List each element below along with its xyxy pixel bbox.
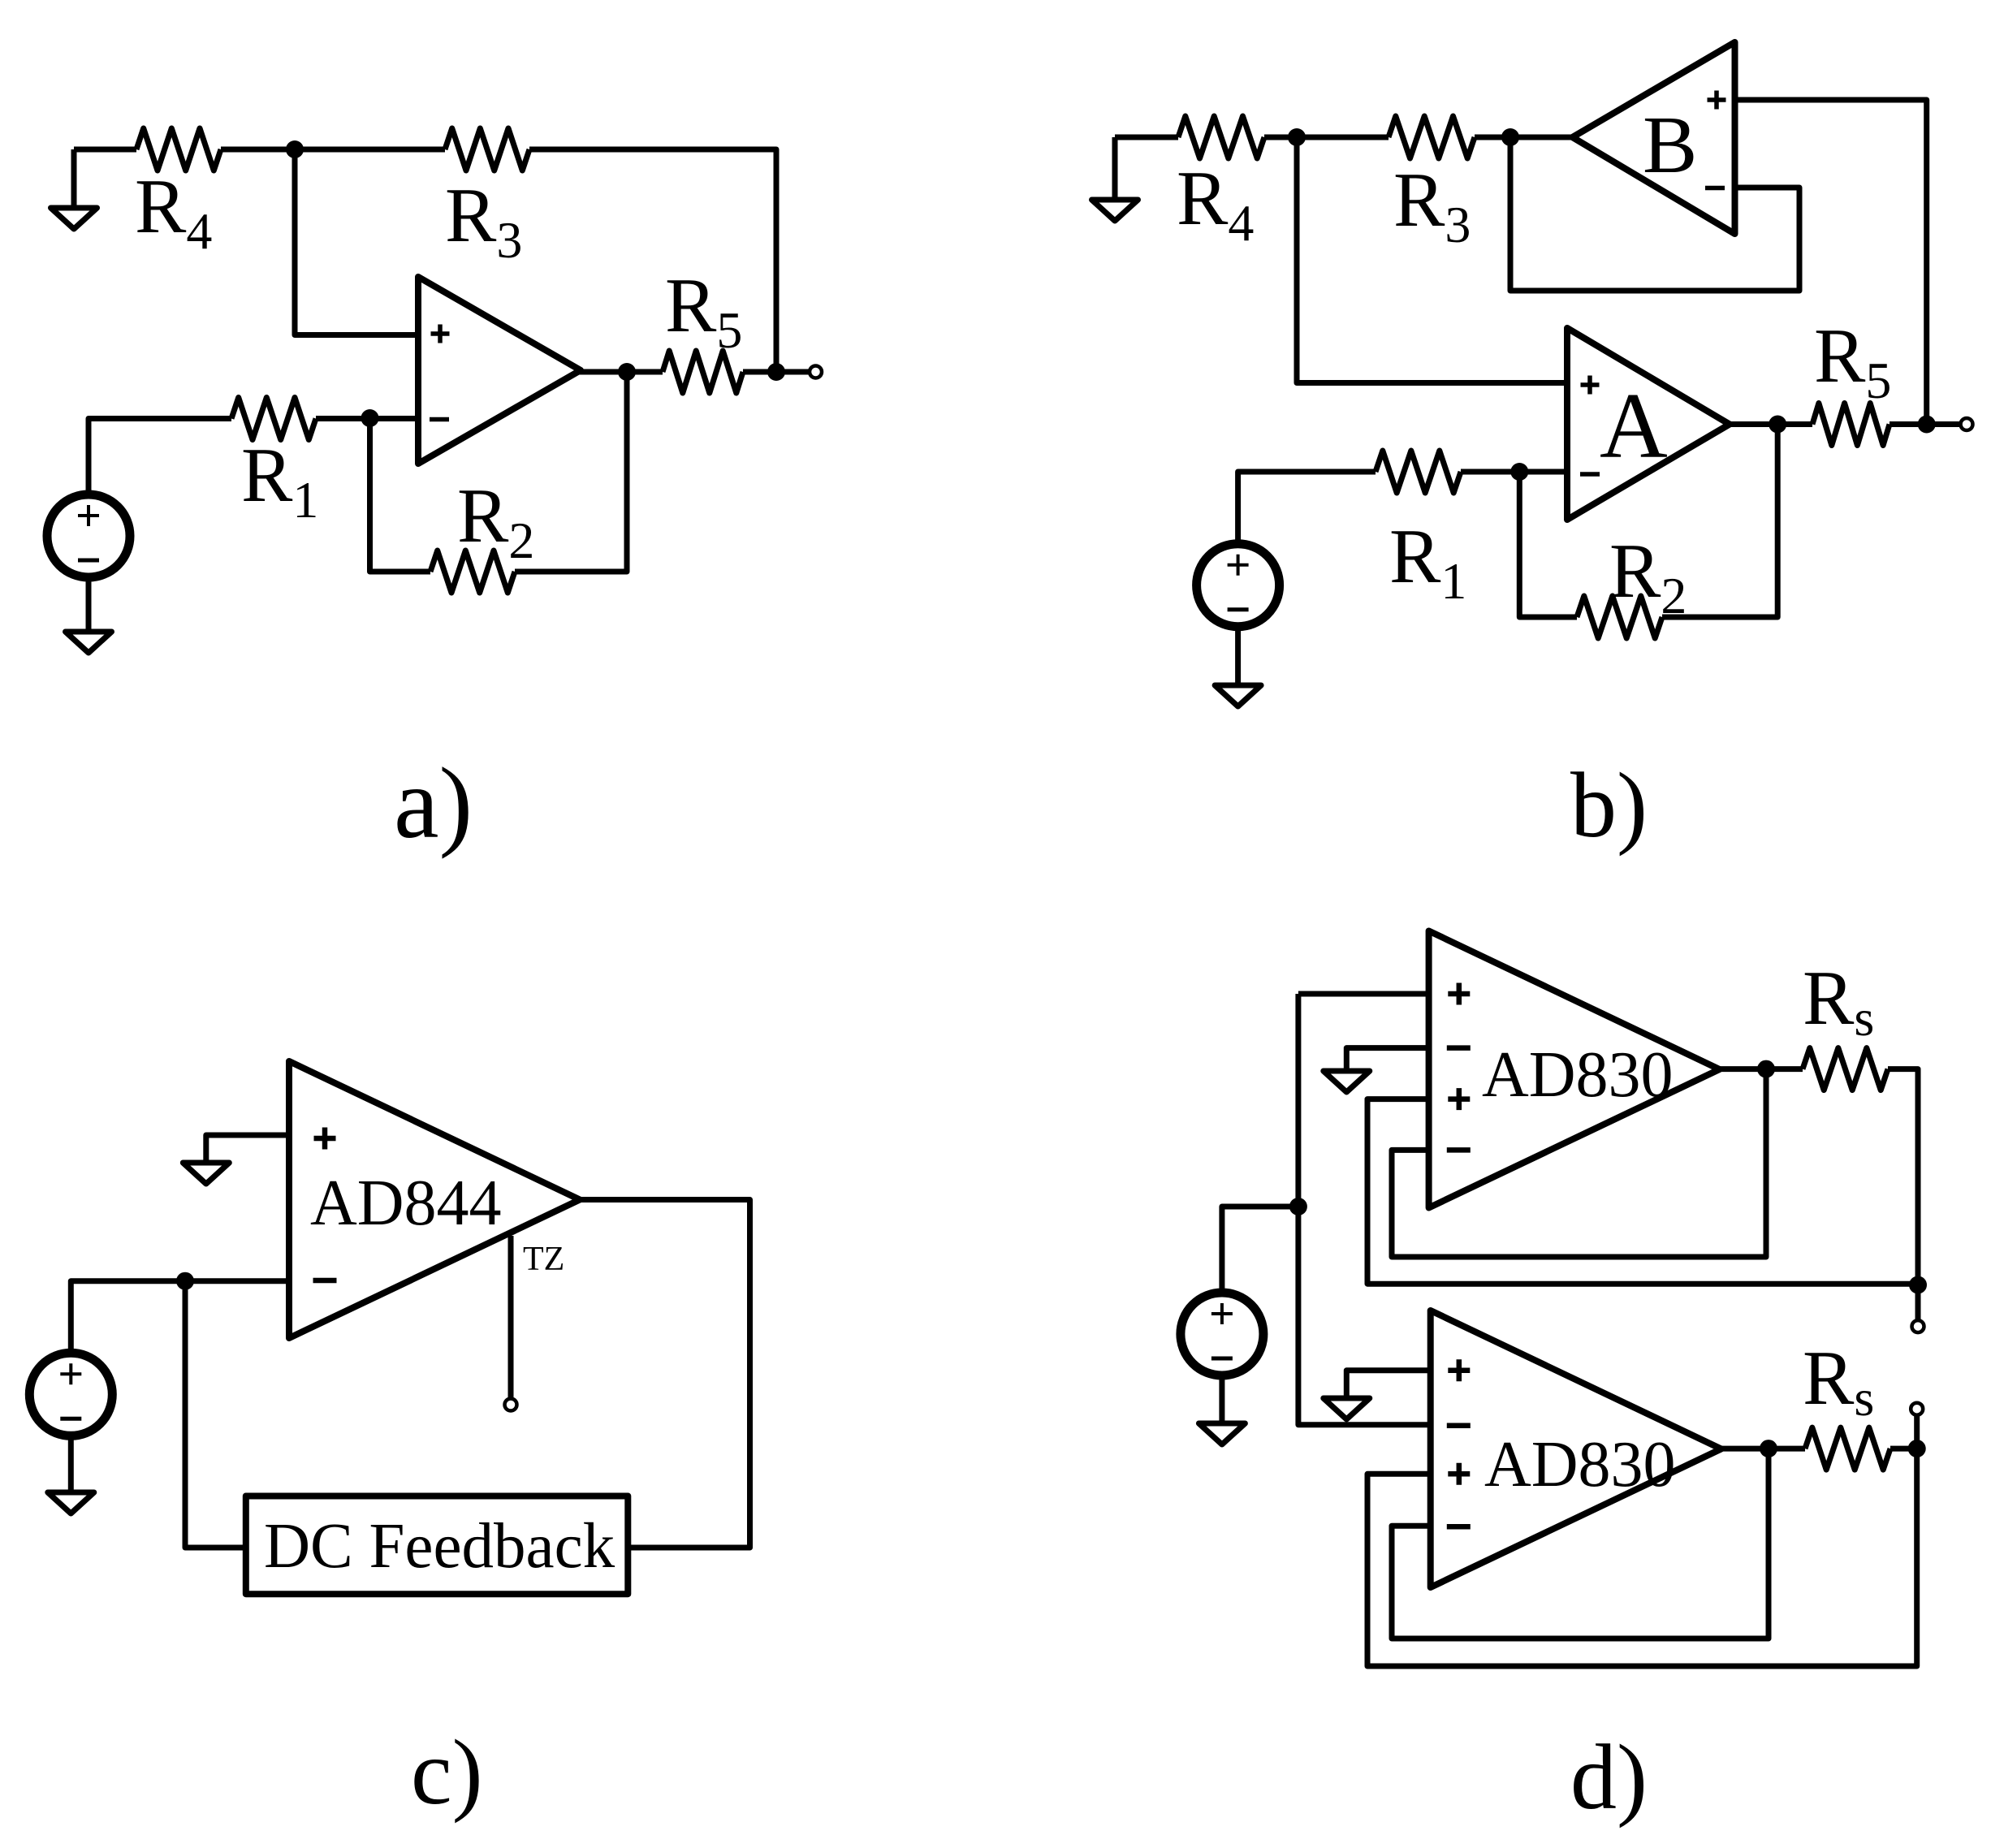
svg-text:AD830: AD830: [1484, 1429, 1676, 1500]
circuit a) output junction dot: [618, 363, 636, 381]
circuit a) ground under source: [66, 632, 112, 653]
circuit b) wire R5 to output terminal: [1890, 421, 1967, 427]
circuit b) R2 feedback loop wire left: [1519, 472, 1577, 617]
circuit b) op-amp B + input wire to output node: [1735, 100, 1927, 425]
circuit c) TZ pin stub: [508, 1236, 514, 1398]
circuit d) wire source to node: [1222, 1207, 1298, 1293]
circuit a) wire source to R1: [89, 419, 231, 495]
circuit d) ground at upper amp pin2: [1324, 1071, 1370, 1092]
circuit d) upper output terminal: [1912, 1320, 1924, 1332]
circuit a) wire R5 to output terminal: [743, 369, 815, 375]
svg-text:A: A: [1600, 374, 1668, 478]
circuit b) A output junction dot: [1769, 416, 1786, 434]
circuit c) AD844 + mark: [314, 1128, 336, 1150]
circuit a) node N1 junction dot: [286, 140, 304, 158]
svg-text:d): d): [1570, 1725, 1648, 1829]
circuit b) wire N1 to R3: [1297, 135, 1389, 140]
circuit b) R5 right junction dot: [1918, 416, 1936, 434]
circuit b) ground at R4 left: [1112, 137, 1118, 200]
circuit b) resistor R3: [1389, 116, 1475, 158]
svg-text:c): c): [411, 1721, 483, 1824]
circuit a) op-amp output wire: [577, 369, 663, 375]
circuit b) wire R1 to A - input: [1461, 469, 1567, 475]
circuit b) wire ground to R4: [1115, 135, 1178, 140]
circuit a) voltage source V1: [47, 494, 130, 577]
circuit d) lower output terminal: [1911, 1403, 1923, 1415]
circuit d) upper right junction dot: [1909, 1276, 1927, 1294]
circuit d) U1 pin2 - mark: [1447, 1045, 1471, 1051]
circuit d) upper amp AD830 U1: [1429, 931, 1720, 1208]
circuit b) resistor R1: [1376, 451, 1461, 493]
circuit c) wire source to ground: [68, 1436, 74, 1492]
circuit b) op-amp B - feedback loop: [1510, 137, 1799, 291]
circuit d) wire source to ground: [1219, 1375, 1224, 1423]
circuit b) op-amp A output wire: [1731, 421, 1812, 427]
circuit c) ground at + input: [183, 1163, 229, 1184]
circuit d) resistor Rs upper: [1803, 1048, 1888, 1090]
circuit d) U2 output junction dot: [1760, 1440, 1777, 1457]
svg-text:AD844: AD844: [310, 1168, 502, 1239]
circuit d) upper terminal stub: [1915, 1285, 1921, 1321]
circuit a) wire R1 to inverting node: [316, 416, 418, 421]
circuit b) node N2 junction dot: [1501, 128, 1519, 146]
circuit d) ground at lower amp pin1: [1324, 1398, 1370, 1419]
circuit a) resistor R3: [445, 128, 529, 171]
circuit b) op-amp B: [1573, 42, 1735, 234]
circuit a) op-amp U1: [418, 277, 581, 464]
circuit a) wire R4 left lead: [74, 147, 136, 153]
circuit b) resistor R2: [1577, 596, 1662, 638]
circuit a) inverting node junction dot: [361, 409, 379, 427]
circuit d) U2 pin3 + sense loop: [1367, 1449, 1917, 1666]
circuit d) wire to upper amp pin1 +: [1298, 991, 1429, 997]
circuit d) U2 pin2 - mark: [1447, 1423, 1471, 1429]
circuit d) upper amp pin2 - wire: [1346, 1048, 1428, 1071]
circuit b) op-amp B + mark: [1708, 91, 1726, 110]
circuit d) wire Rs lower to junction: [1890, 1446, 1917, 1452]
circuit d) resistor Rs lower: [1805, 1427, 1890, 1470]
circuit c) TZ terminal: [505, 1399, 517, 1411]
circuit a) resistor R5: [663, 351, 743, 393]
circuit d) U2 output wire: [1720, 1446, 1805, 1452]
circuit d) U1 output junction dot: [1757, 1060, 1775, 1078]
circuit b) node N1 junction dot: [1288, 128, 1306, 146]
circuit d) U1 pin1 + mark: [1448, 983, 1470, 1005]
circuit b) A inverting junction dot: [1510, 463, 1528, 481]
circuit d) U1 pin4 - mark: [1447, 1147, 1471, 1153]
circuit b) wire R4 to node N1: [1264, 135, 1297, 140]
circuit d) U1 pin3 + mark: [1448, 1088, 1470, 1110]
circuit d) source node junction dot: [1289, 1198, 1307, 1215]
circuit b) op-amp B - mark: [1705, 186, 1725, 191]
circuit a) op-amp U1 + mark: [431, 325, 450, 343]
circuit a) R2 feedback loop wire left: [370, 418, 431, 572]
circuit c) - input junction dot: [176, 1272, 194, 1290]
circuit c) wire + input to ground: [206, 1135, 289, 1163]
circuit c) wire - node to DC feedback box: [185, 1281, 246, 1548]
circuit d) U2 pin3 + mark: [1448, 1463, 1470, 1485]
circuit a) output terminal: [810, 366, 822, 378]
circuit a) resistor R2: [430, 551, 515, 593]
circuit d) lower right junction dot: [1908, 1440, 1926, 1457]
circuit d) U2 pin4 - feedback loop: [1392, 1449, 1769, 1639]
circuit b) ground under source: [1215, 685, 1261, 706]
circuit d) input bus vertical wire: [1295, 994, 1301, 1207]
circuit b) wire source to ground: [1235, 627, 1241, 685]
circuit d) input bus to lower amp - input: [1298, 1207, 1431, 1425]
circuit c) output feedback wire right: [580, 1200, 750, 1548]
svg-text:B: B: [1643, 99, 1697, 190]
circuit a) resistor R4: [136, 128, 221, 171]
circuit b) wire N1 to op-amp A + input: [1297, 137, 1567, 383]
circuit d) voltage source V1: [1181, 1293, 1263, 1375]
circuit d) U2 pin1 + mark: [1448, 1359, 1470, 1381]
circuit a) op-amp U1 - mark: [430, 417, 449, 422]
svg-text:TZ: TZ: [523, 1241, 564, 1278]
svg-text:AD830: AD830: [1482, 1039, 1674, 1111]
circuit a) wire N1 to R3: [295, 147, 445, 153]
circuit a) wire node N1 to op-amp + input: [295, 149, 418, 335]
circuit d) ground under source: [1199, 1423, 1245, 1444]
circuit c) ground under source: [48, 1492, 94, 1513]
circuit b) R2 feedback loop wire right: [1662, 425, 1777, 618]
circuit c) op-amp AD844: [289, 1061, 580, 1338]
circuit b) output terminal: [1961, 418, 1973, 430]
circuit b) wire source to R1: [1238, 472, 1376, 544]
svg-text:b): b): [1570, 753, 1648, 857]
circuit a) resistor R1: [231, 398, 316, 440]
circuit a) wire R4 to node N1: [221, 147, 295, 153]
circuit c) wire source to - input: [71, 1281, 289, 1353]
circuit d) lower amp AD830 U2: [1431, 1310, 1721, 1587]
circuit d) U1 pin3 + sense loop: [1367, 1099, 1918, 1285]
svg-text:DC Feedback: DC Feedback: [264, 1511, 615, 1582]
circuit b) resistor R5: [1812, 404, 1890, 446]
circuit d) lower terminal stub: [1914, 1414, 1920, 1449]
circuit c) DC Feedback box: [246, 1496, 628, 1595]
circuit a) R5 right junction dot: [767, 363, 785, 381]
circuit b) resistor R4: [1178, 116, 1264, 158]
circuit c) AD844 - mark: [313, 1278, 337, 1284]
circuit d) U2 pin4 - mark: [1447, 1524, 1471, 1530]
circuit a) ground at R4 left: [71, 149, 77, 208]
circuit c) voltage source V1: [29, 1353, 112, 1436]
circuit b) op-amp A + mark: [1581, 376, 1600, 395]
circuit a) wire R3 to output node (feedback top): [529, 149, 776, 372]
circuit b) voltage source V1: [1197, 544, 1280, 627]
circuit a) wire source to ground: [86, 577, 92, 632]
svg-text:a): a): [394, 748, 473, 860]
circuit d) U1 output wire: [1720, 1066, 1803, 1072]
circuit a) R2 feedback loop wire right: [515, 372, 627, 572]
circuit b) op-amp A: [1567, 328, 1730, 520]
circuit b) wire R3 to node N2: [1475, 135, 1573, 140]
circuit d) U1 pin4 - feedback loop: [1392, 1069, 1766, 1257]
circuit d) wire Rs to right vertical: [1888, 1069, 1918, 1285]
circuit b) op-amp A - mark: [1580, 472, 1600, 477]
circuit d) lower amp pin1 + wire: [1346, 1371, 1430, 1398]
